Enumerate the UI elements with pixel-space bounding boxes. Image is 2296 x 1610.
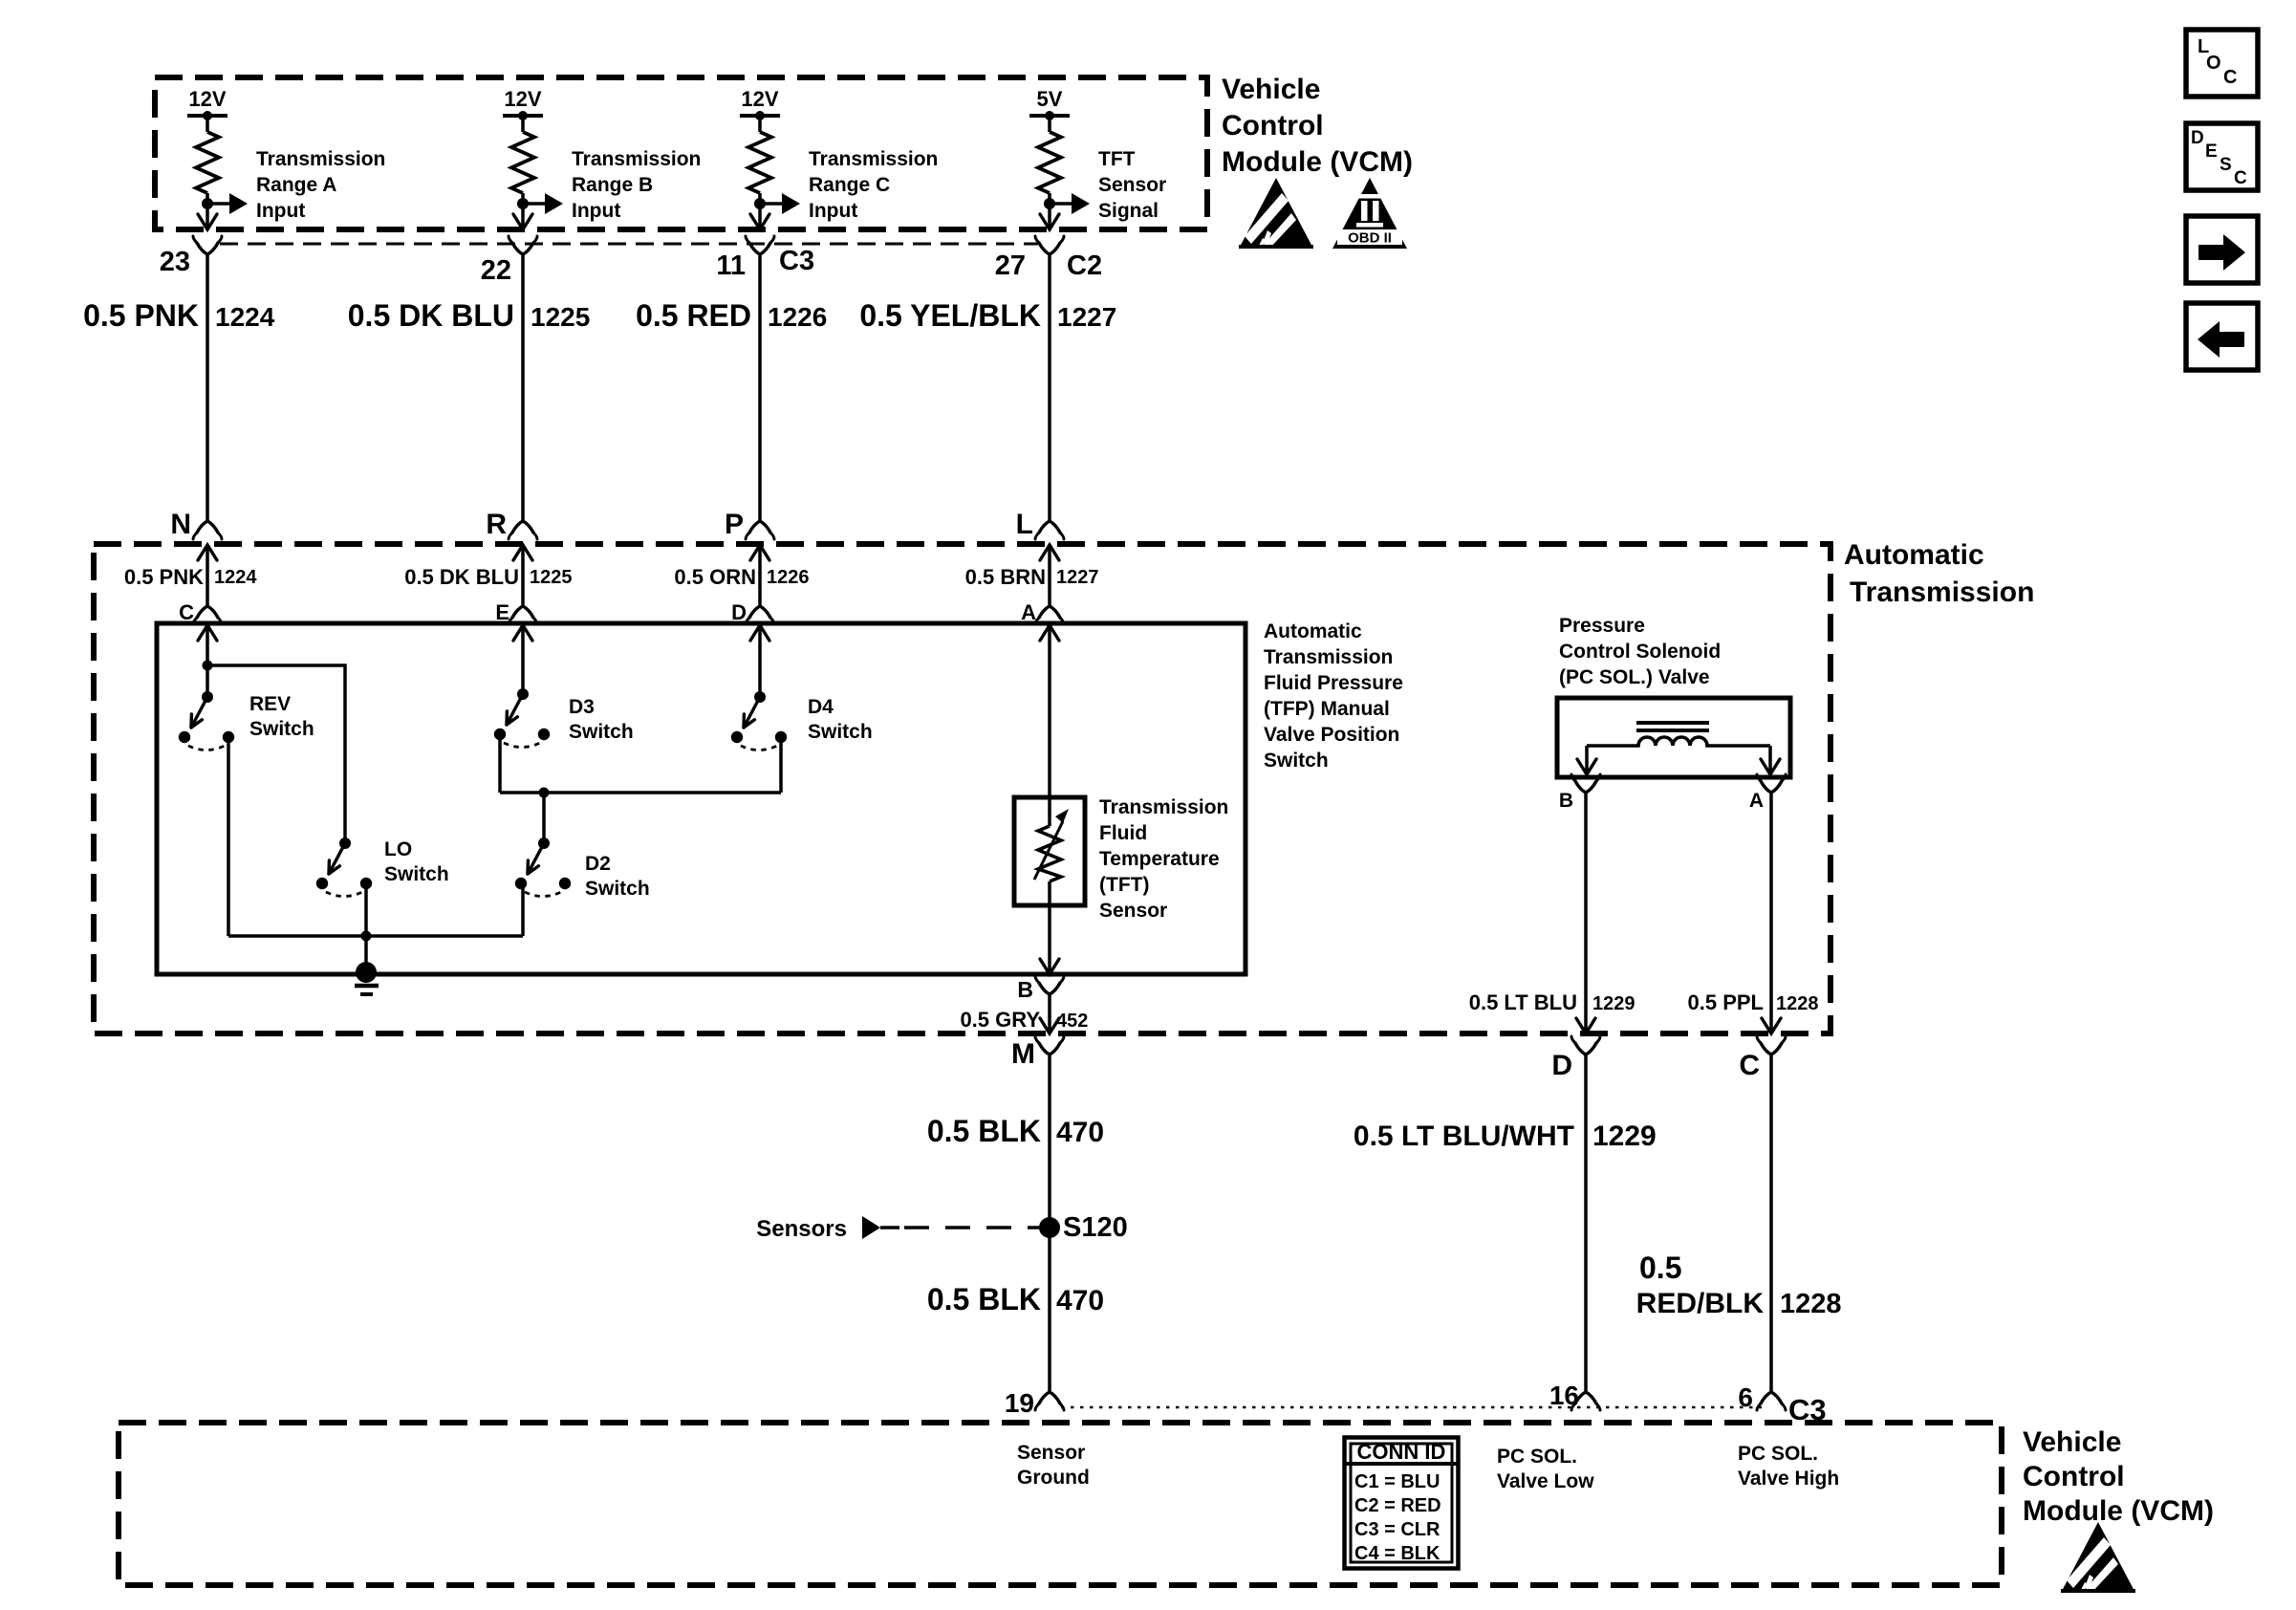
Transmission Fluid Temperature (TFT) sensor box	[1014, 797, 1085, 905]
REV switch arm	[191, 697, 207, 728]
OBD II triangle icon	[1332, 178, 1407, 249]
node at resistor bottom (R-C)	[758, 193, 762, 228]
svg-text:0.5 RED: 0.5 RED	[636, 298, 751, 333]
svg-text:A: A	[1021, 600, 1036, 624]
wire TFT to pin B	[1048, 881, 1051, 973]
svg-text:PC SOL.: PC SOL.	[1497, 1446, 1577, 1468]
wire LO right contact to ground junction	[364, 886, 368, 936]
next (right arrow) button	[2186, 216, 2258, 283]
svg-text:REV: REV	[249, 693, 291, 715]
D2 switch arm	[528, 843, 544, 874]
svg-text:1229: 1229	[1592, 1120, 1657, 1152]
REV switch contacts	[179, 731, 190, 743]
svg-text:D4: D4	[808, 696, 834, 718]
svg-text:Switch: Switch	[384, 863, 449, 885]
splice S120	[1039, 1217, 1060, 1238]
svg-text:1225: 1225	[531, 302, 590, 332]
arrow out of transmission at M	[1040, 1018, 1059, 1033]
svg-text:Module (VCM): Module (VCM)	[1222, 146, 1413, 178]
svg-text:E: E	[495, 600, 509, 624]
svg-text:0.5 BLK: 0.5 BLK	[927, 1114, 1041, 1148]
wire C to REV switch	[206, 625, 209, 697]
connector fork pin 16	[1575, 1392, 1596, 1403]
svg-text:0.5 YEL/BLK: 0.5 YEL/BLK	[859, 298, 1041, 333]
connector fork M	[1039, 1043, 1060, 1055]
wire bus to D2 switch	[542, 793, 546, 843]
svg-text:N: N	[170, 509, 191, 540]
svg-text:Range B: Range B	[572, 174, 653, 196]
svg-text:Range A: Range A	[256, 174, 336, 196]
svg-text:Valve Low: Valve Low	[1497, 1470, 1594, 1492]
svg-text:Automatic: Automatic	[1264, 620, 1362, 642]
svg-text:16: 16	[1549, 1381, 1579, 1410]
Automatic Transmission dashed box	[94, 544, 1830, 1033]
LO switch contacts	[316, 878, 328, 889]
solenoid lead A	[1768, 746, 1772, 772]
svg-text:Vehicle: Vehicle	[2023, 1426, 2121, 1458]
svg-text:27: 27	[995, 250, 1026, 281]
node at resistor bottom (R-A)	[206, 193, 209, 228]
svg-text:Transmission: Transmission	[809, 148, 938, 170]
svg-text:Switch: Switch	[569, 721, 634, 743]
svg-text:1227: 1227	[1057, 302, 1116, 332]
svg-text:P: P	[725, 509, 744, 540]
connector fork, wire x=217	[197, 243, 218, 254]
svg-text:D2: D2	[585, 853, 611, 875]
svg-text:Input: Input	[809, 200, 857, 222]
svg-text:22: 22	[481, 255, 511, 286]
svg-text:R: R	[486, 509, 507, 540]
svg-text:M: M	[1011, 1038, 1035, 1070]
wire A to TFT sensor	[1048, 625, 1051, 826]
switch-plate pin D fork	[749, 606, 770, 618]
svg-text:1228: 1228	[1780, 1289, 1842, 1319]
svg-text:5V: 5V	[1037, 87, 1063, 111]
svg-text:C2: C2	[1067, 250, 1102, 281]
svg-text:C4 = BLK: C4 = BLK	[1354, 1543, 1440, 1564]
arrow out of VCM (R-B)	[513, 214, 532, 229]
svg-text:1229: 1229	[1592, 993, 1635, 1014]
connector fork P (transmission entry)	[749, 521, 770, 533]
svg-text:0.5 PNK: 0.5 PNK	[83, 298, 199, 333]
switch-plate pin C fork	[197, 606, 218, 618]
svg-text:0.5 PNK: 0.5 PNK	[124, 565, 204, 589]
arrow into TFP switch at E	[513, 625, 532, 641]
branch node to LO switch	[203, 661, 213, 671]
solenoid coil	[1587, 737, 1770, 746]
wire 0.5 RED/BLK 1228	[1769, 1055, 1773, 1392]
connector fork pin 19	[1039, 1392, 1060, 1403]
svg-text:1225: 1225	[530, 567, 573, 588]
svg-text:B: B	[1559, 790, 1573, 812]
CONN ID table	[1344, 1438, 1459, 1569]
wire D4 right contact to D3/D4 bus	[779, 740, 783, 793]
svg-text:S: S	[2220, 155, 2232, 175]
svg-text:(TFP) Manual: (TFP) Manual	[1264, 698, 1390, 720]
svg-text:Temperature: Temperature	[1099, 848, 1220, 870]
TFT thermistor arrow	[1034, 821, 1063, 880]
svg-text:12V: 12V	[504, 87, 541, 111]
connector fork, wire x=1098	[1039, 243, 1060, 254]
svg-text:11: 11	[716, 250, 746, 281]
svg-text:Control: Control	[1222, 110, 1324, 141]
svg-text:Switch: Switch	[1264, 750, 1329, 772]
svg-text:L: L	[1016, 509, 1033, 540]
D2 switch travel arc (dashed)	[525, 892, 561, 897]
svg-text:PC SOL.: PC SOL.	[1738, 1443, 1818, 1465]
svg-text:0.5 GRY: 0.5 GRY	[960, 1008, 1040, 1032]
signal tap arrow (R-C)	[760, 202, 784, 206]
svg-text:(TFT): (TFT)	[1099, 874, 1149, 896]
connector fork C	[1761, 1043, 1782, 1055]
VCM top connector face (thin dashed)	[220, 243, 1038, 246]
ground bus wire	[228, 934, 523, 938]
svg-text:Fluid Pressure: Fluid Pressure	[1264, 672, 1403, 694]
wire D2 left contact to ground bus	[521, 886, 525, 936]
connector fork L (transmission entry)	[1039, 521, 1060, 533]
switch-plate pin E fork	[512, 606, 533, 618]
svg-text:1226: 1226	[768, 302, 827, 332]
svg-text:Transmission: Transmission	[1099, 796, 1228, 818]
svg-text:Vehicle: Vehicle	[1222, 74, 1320, 105]
wire 0.5 BLK 470 upper	[1048, 1055, 1051, 1392]
D4 switch travel arc (dashed)	[741, 746, 777, 751]
solenoid lead B	[1585, 746, 1589, 772]
svg-text:0.5 PPL: 0.5 PPL	[1688, 990, 1764, 1014]
wire 1225 VCM to transmission	[521, 254, 525, 521]
pin B fork (TFT sensor low)	[1039, 983, 1060, 994]
TFT thermistor element	[1038, 826, 1061, 881]
svg-text:1224: 1224	[215, 302, 275, 332]
arrow into transmission at R	[513, 545, 532, 560]
svg-text:1227: 1227	[1056, 567, 1099, 588]
ground junction node	[361, 931, 372, 942]
svg-text:Switch: Switch	[249, 718, 314, 740]
12V supply rail (R-A)	[187, 114, 227, 118]
wire to LO switch (branch)	[207, 665, 345, 843]
wire 0.5 DK BLU 1225 inside transmission	[521, 545, 525, 606]
wire 0.5 PNK 1224 inside transmission	[206, 545, 209, 606]
svg-text:Transmission: Transmission	[1850, 577, 2034, 608]
svg-text:Range C: Range C	[809, 174, 890, 196]
svg-text:Automatic: Automatic	[1844, 539, 1984, 571]
D3 switch arm	[507, 694, 523, 725]
wire 1226 VCM to transmission	[758, 254, 762, 521]
connector fork, wire x=547	[512, 243, 533, 254]
svg-text:Ground: Ground	[1017, 1467, 1090, 1489]
svg-text:Transmission: Transmission	[256, 148, 385, 170]
svg-text:Sensor: Sensor	[1099, 900, 1167, 922]
arrow into transmission at N	[198, 545, 217, 560]
svg-text:Pressure: Pressure	[1559, 615, 1645, 637]
svg-text:RED/BLK: RED/BLK	[1636, 1288, 1765, 1319]
wire 0.5 LT BLU 1229	[1584, 793, 1588, 1033]
arrow into transmission at L	[1040, 545, 1059, 560]
bottom connector face (dotted)	[1061, 1406, 1762, 1409]
svg-text:Sensors: Sensors	[756, 1216, 847, 1242]
svg-text:C2 = RED: C2 = RED	[1354, 1495, 1441, 1516]
svg-text:C3 = CLR: C3 = CLR	[1354, 1519, 1440, 1540]
Vehicle Control Module (VCM) top dashed box	[155, 77, 1207, 229]
DESC button	[2186, 123, 2258, 190]
svg-text:470: 470	[1056, 1117, 1104, 1148]
svg-text:Fluid: Fluid	[1099, 822, 1147, 844]
arrow out of VCM (TFT)	[1040, 214, 1059, 229]
svg-text:Valve Position: Valve Position	[1264, 724, 1399, 746]
node at resistor bottom (R-B)	[521, 193, 525, 228]
svg-text:C: C	[179, 600, 194, 624]
D3 switch travel arc (dashed)	[504, 743, 540, 748]
svg-text:Input: Input	[256, 200, 305, 222]
svg-text:Switch: Switch	[585, 878, 650, 900]
svg-text:C: C	[2223, 67, 2237, 88]
LO switch travel arc (dashed)	[326, 892, 362, 897]
connector fork R (transmission entry)	[512, 521, 533, 533]
svg-text:Transmission: Transmission	[572, 148, 701, 170]
arrow out of transmission at C	[1762, 1018, 1781, 1033]
svg-text:0.5 LT BLU: 0.5 LT BLU	[1469, 990, 1577, 1014]
LO switch arm	[329, 843, 345, 874]
svg-text:D: D	[2191, 128, 2204, 148]
svg-text:S120: S120	[1063, 1212, 1128, 1243]
svg-text:Signal: Signal	[1098, 200, 1159, 222]
svg-text:CONN ID: CONN ID	[1357, 1440, 1446, 1464]
wire to case ground	[364, 936, 368, 971]
arrow into TFP switch at A	[1040, 625, 1059, 641]
svg-text:0.5 BRN: 0.5 BRN	[965, 565, 1046, 589]
svg-text:1228: 1228	[1776, 993, 1819, 1014]
svg-text:Switch: Switch	[808, 721, 873, 743]
svg-text:Input: Input	[572, 200, 620, 222]
signal tap arrow (R-A)	[207, 202, 231, 206]
svg-text:B: B	[1017, 977, 1033, 1002]
svg-text:0.5 LT BLU/WHT: 0.5 LT BLU/WHT	[1354, 1120, 1574, 1152]
svg-text:C: C	[1739, 1050, 1760, 1081]
svg-text:Module (VCM): Module (VCM)	[2023, 1495, 2214, 1527]
connector fork, wire x=795	[749, 243, 770, 254]
svg-text:Control Solenoid: Control Solenoid	[1559, 641, 1721, 663]
svg-text:O: O	[2206, 53, 2221, 74]
svg-text:12V: 12V	[188, 87, 226, 111]
svg-text:(PC SOL.) Valve: (PC SOL.) Valve	[1559, 666, 1710, 688]
svg-text:D: D	[731, 600, 747, 624]
connector fork N (transmission entry)	[197, 521, 218, 533]
svg-text:0.5 BLK: 0.5 BLK	[927, 1282, 1041, 1316]
svg-text:1224: 1224	[214, 567, 257, 588]
svg-text:TFT: TFT	[1098, 148, 1136, 170]
svg-text:Valve High: Valve High	[1738, 1468, 1839, 1490]
pull-up resistor (TFT)	[1048, 116, 1051, 132]
wire 1227 VCM to transmission	[1048, 254, 1051, 521]
12V supply rail (R-B)	[503, 114, 543, 118]
node D3/D4 bus to D2	[539, 788, 550, 798]
node at resistor bottom (TFT)	[1048, 193, 1051, 228]
wire REV right contact to ground bus	[227, 741, 230, 936]
wire 1224 VCM to transmission	[206, 254, 209, 521]
pull-up resistor (R-B)	[521, 116, 525, 132]
svg-text:A: A	[1749, 790, 1764, 812]
LOC button	[2186, 30, 2258, 97]
wire 0.5 PPL 1228	[1769, 793, 1773, 1033]
svg-text:452: 452	[1056, 1011, 1088, 1032]
svg-text:Transmission: Transmission	[1264, 646, 1393, 668]
svg-text:Control: Control	[2023, 1461, 2125, 1492]
svg-text:Sensor: Sensor	[1017, 1442, 1085, 1464]
connector fork D	[1575, 1043, 1596, 1055]
wire D3 left contact to D3/D4 bus	[498, 737, 502, 793]
svg-text:23: 23	[160, 247, 190, 277]
arrow out of VCM (R-A)	[198, 214, 217, 229]
wire 0.5 BRN 1227 inside transmission	[1048, 545, 1051, 606]
PC SOL valve box	[1557, 698, 1790, 777]
svg-text:OBD II: OBD II	[1348, 230, 1392, 247]
svg-text:0.5 ORN: 0.5 ORN	[674, 565, 756, 589]
solenoid pin B fork	[1575, 781, 1596, 793]
D4 switch contacts	[731, 731, 743, 743]
pull-up resistor (R-A)	[206, 116, 209, 132]
5V supply rail (TFT)	[1029, 114, 1070, 118]
wire D to D4 switch	[758, 625, 762, 697]
svg-text:0.5 DK BLU: 0.5 DK BLU	[404, 565, 519, 589]
arrow out of TFP box at B	[1040, 959, 1059, 974]
signal tap arrow (TFT)	[1050, 202, 1073, 206]
svg-text:1226: 1226	[767, 567, 810, 588]
pull-up resistor (R-C)	[758, 116, 762, 132]
D4 switch arm	[744, 697, 760, 728]
Vehicle Control Module (VCM) bottom dashed box	[119, 1423, 2002, 1585]
ESD sensitivity triangle icon (bottom)	[2061, 1522, 2135, 1593]
D3 switch contacts	[494, 729, 506, 740]
wire 0.5 LT BLU/WHT 1229	[1584, 1055, 1588, 1392]
REV switch travel arc (dashed)	[188, 746, 225, 751]
svg-text:C3: C3	[779, 246, 814, 276]
wire E to D3 switch	[521, 625, 525, 694]
wire 0.5 GRY 452	[1048, 994, 1051, 1033]
signal tap arrow (R-B)	[523, 202, 547, 206]
previous (left arrow) button	[2186, 303, 2258, 370]
arrow into TFP switch at C	[198, 625, 217, 641]
solenoid core lines	[1636, 721, 1709, 725]
svg-text:0.5 DK BLU: 0.5 DK BLU	[348, 298, 514, 333]
dashed link to S120	[904, 1226, 1039, 1229]
svg-text:LO: LO	[384, 838, 412, 860]
svg-text:C1 = BLU: C1 = BLU	[1354, 1471, 1440, 1492]
solenoid pin A fork	[1761, 781, 1782, 793]
D2 switch contacts	[515, 878, 527, 889]
arrow out of transmission at D	[1576, 1018, 1595, 1033]
svg-text:19: 19	[1005, 1388, 1034, 1418]
arrow into TFP switch at D	[750, 625, 769, 641]
connector fork pin 6	[1761, 1392, 1782, 1403]
svg-text:D: D	[1551, 1050, 1572, 1081]
12V supply rail (R-C)	[740, 114, 780, 118]
svg-text:E: E	[2205, 141, 2218, 162]
D3/D4 bus wire	[500, 791, 781, 794]
svg-text:C: C	[2234, 168, 2247, 188]
arrow into transmission at P	[750, 545, 769, 560]
svg-text:D3: D3	[569, 696, 595, 718]
svg-text:470: 470	[1056, 1285, 1104, 1316]
case ground	[356, 962, 377, 983]
arrow out of VCM (R-C)	[750, 214, 769, 229]
svg-text:12V: 12V	[741, 87, 778, 111]
svg-text:Sensor: Sensor	[1098, 174, 1166, 196]
switch-plate pin A fork	[1039, 606, 1060, 618]
wire 0.5 ORN 1226 inside transmission	[758, 545, 762, 606]
svg-text:0.5: 0.5	[1639, 1251, 1681, 1285]
TFP manual valve position switch box (solid)	[157, 623, 1245, 974]
